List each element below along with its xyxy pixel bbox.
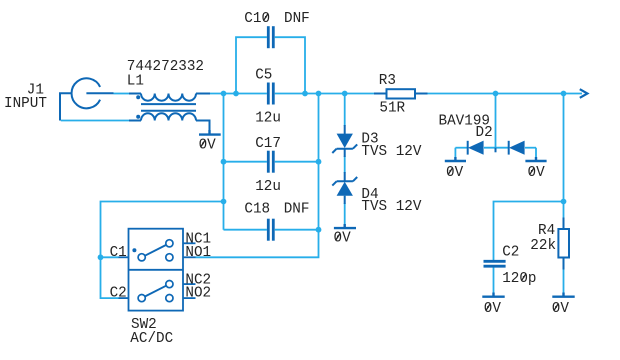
- SW2 pole 2 lever: [145, 286, 166, 297]
- wire C17 right: [275, 161, 319, 163]
- svg-text:NO2: NO2: [185, 286, 211, 302]
- wire C17 left: [224, 161, 267, 163]
- wire C18 left: [224, 229, 267, 231]
- wire C2 to ground: [493, 268, 495, 294]
- svg-text:22k: 22k: [530, 238, 556, 254]
- D2 center pin tick: [495, 148, 497, 153]
- wire main bus C5 to R3: [275, 93, 374, 95]
- inductor L1 common mode choke: [129, 94, 210, 131]
- ground 0V under L1: [199, 130, 221, 135]
- wire J1 to L1 top: [114, 93, 130, 95]
- wire main bus left of C5: [210, 93, 267, 95]
- wire left vertical bus to C18: [223, 94, 225, 230]
- ground 0V under R4: [552, 293, 574, 297]
- junction bus at right vertical: [316, 91, 322, 97]
- svg-text:C17: C17: [255, 136, 281, 152]
- svg-text:120p: 120p: [502, 271, 536, 287]
- svg-text:C5: C5: [255, 68, 272, 84]
- svg-text:R3: R3: [379, 73, 396, 89]
- wire bus to D2 center: [495, 94, 497, 148]
- capacitor C17: [268, 151, 273, 173]
- junction C17 left: [221, 159, 227, 165]
- junction bus at D2 branch: [493, 91, 499, 97]
- SW2 position dot: [132, 248, 136, 252]
- wire R4 to ground: [563, 270, 565, 294]
- capacitor C10: [268, 26, 273, 48]
- svg-text:R4: R4: [538, 223, 555, 239]
- wire D2 row right: [525, 147, 536, 149]
- junction switch line: [221, 199, 227, 205]
- wire D2 left ground drop: [454, 148, 456, 158]
- wire D2 right ground drop: [535, 148, 537, 158]
- connector J1: [60, 78, 114, 120]
- wire C10 left branch: [236, 37, 267, 93]
- wire main bus R3 to arrow: [428, 93, 583, 95]
- wire node to C2: [494, 202, 564, 261]
- diode D2b right: [509, 141, 525, 155]
- junction bus at left vertical: [221, 91, 227, 97]
- svg-text:51R: 51R: [379, 101, 405, 117]
- wire switch common to left vertical: [101, 202, 224, 299]
- capacitor C18: [268, 219, 273, 241]
- svg-text:12u: 12u: [255, 111, 281, 127]
- wire bus to D3: [344, 94, 346, 127]
- svg-text:NO1: NO1: [185, 245, 211, 261]
- wire C1 stub: [101, 256, 119, 258]
- svg-text:C1: C1: [110, 245, 127, 261]
- L1 polarity dot top: [136, 95, 140, 99]
- junction C18 right: [316, 227, 322, 233]
- junction C1 pin: [98, 254, 104, 260]
- ground 0V under D2 right: [525, 157, 546, 161]
- capacitor C2: [484, 261, 506, 266]
- wire D3 to D4: [344, 156, 346, 173]
- junction R4 C2 node: [561, 199, 567, 205]
- diode D3 TVS: [332, 125, 357, 157]
- svg-text:C2: C2: [110, 286, 127, 302]
- ground 0V under D2 left: [445, 157, 466, 161]
- junction bus at C10 right: [302, 91, 308, 97]
- diode D4 TVS: [332, 172, 357, 204]
- wire C10 right branch: [275, 37, 305, 93]
- resistor R4: [558, 218, 569, 270]
- svg-text:TVS 12V: TVS 12V: [361, 144, 421, 160]
- ground 0V under C2: [482, 293, 504, 297]
- wire D2 row left: [455, 147, 467, 149]
- output arrow: [580, 89, 588, 98]
- svg-text:C10: C10: [244, 11, 270, 27]
- svg-text:C2: C2: [502, 245, 519, 261]
- junction bus at TVS branch: [342, 91, 348, 97]
- wire bus to R4 node: [563, 94, 565, 218]
- SW2 pole 1 lever: [145, 245, 166, 256]
- resistor R3: [374, 89, 428, 98]
- wire right vertical bus to NO1: [196, 94, 319, 258]
- diode D2a left: [468, 141, 484, 155]
- wire D2 row middle: [484, 147, 508, 149]
- capacitor C5: [268, 83, 273, 105]
- L1 polarity dot bottom: [136, 115, 140, 119]
- wire D4 to ground: [344, 203, 346, 225]
- svg-text:D2: D2: [476, 125, 493, 141]
- ground 0V under D4: [334, 224, 356, 228]
- svg-text:TVS 12V: TVS 12V: [361, 199, 421, 215]
- svg-text:DNF: DNF: [284, 202, 310, 218]
- svg-text:C18: C18: [244, 202, 270, 218]
- junction C17 right: [316, 159, 322, 165]
- wire J1 to L1 bottom: [61, 120, 129, 122]
- svg-text:12u: 12u: [255, 179, 281, 195]
- svg-text:INPUT: INPUT: [4, 96, 47, 112]
- junction bus at C10 left: [233, 91, 239, 97]
- wire C18 right: [275, 229, 319, 231]
- svg-text:L1: L1: [127, 73, 144, 89]
- switch SW2: [119, 229, 196, 311]
- svg-text:DNF: DNF: [284, 11, 310, 27]
- svg-text:AC/DC: AC/DC: [130, 331, 173, 347]
- SW2 contact circles: [138, 240, 173, 302]
- junction bus at R4 branch: [561, 91, 567, 97]
